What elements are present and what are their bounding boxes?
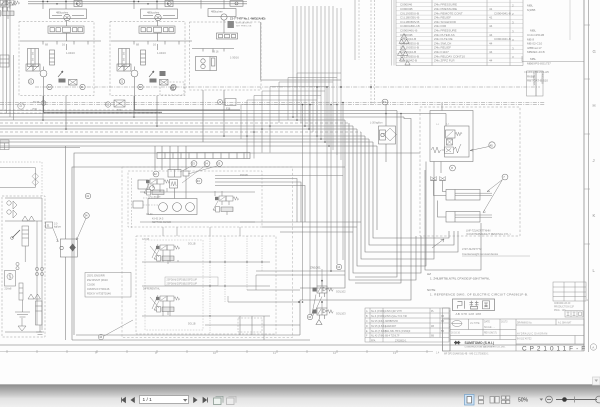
balloon 34: [382, 99, 388, 105]
filter drop line: [385, 105, 387, 126]
svg-text:2SPD(Hi)/2SPD(B)/2SPD1UP: 2SPD(Hi)/2SPD(B)/2SPD1UP: [167, 283, 198, 285]
pump P1 box 480cc/rev: [50, 9, 87, 19]
SUMITOMO logo diamond: [454, 341, 460, 344]
approval stamp box: [565, 311, 583, 317]
gauge block left margin: [0, 55, 9, 67]
solenoid glyph: [59, 79, 66, 83]
spec text box: [85, 273, 131, 298]
balloon 44: [98, 334, 103, 339]
svg-text:68 16: 68 16: [212, 50, 219, 54]
pressure valve column: [168, 170, 181, 178]
svg-text:SOL103: SOL103: [336, 312, 346, 316]
relief triangle B: [28, 294, 34, 299]
top interconnect piping: [28, 0, 247, 9]
balloon 31 (boxed): [46, 222, 53, 228]
balloon 42: [153, 171, 159, 177]
port rail: [20, 40, 101, 42]
balloon leaders: [180, 166, 218, 183]
drop lines: [43, 77, 45, 96]
strainer: [18, 326, 26, 331]
leader arrows into swivel: [53, 229, 58, 242]
svg-text:44: 44: [489, 59, 493, 63]
staircase runs: [373, 142, 449, 238]
kanji 7: [483, 301, 490, 309]
svg-text:D: D: [366, 325, 368, 328]
svg-text:6(1BB: 6(1BB: [527, 8, 535, 12]
counterbalance cartridge: [50, 50, 55, 65]
svg-text:MBL: MBL: [527, 4, 534, 8]
svg-text:43: 43: [197, 179, 200, 183]
toolbar: [0, 385, 600, 407]
dashed risers: [370, 0, 372, 105]
svg-text:SOL102: SOL102: [336, 290, 346, 294]
svg-text:F30: F30: [117, 109, 122, 112]
upper cluster boundary: [128, 171, 262, 227]
leader arrow to boundary: [432, 239, 444, 248]
sheet bottom scale ticks and numbers: [0, 350, 433, 353]
zoom slider: [556, 399, 597, 401]
cells text: [451, 321, 572, 341]
port rails upper cluster: [140, 191, 255, 193]
svg-text:5OL1B: 5OL1B: [188, 323, 196, 326]
svg-text:LNF-7ZLHZNTTNHN: LNF-7ZLHZNTTNHN: [466, 229, 490, 233]
assembly boundary (dashed): [2, 196, 45, 337]
motor M4: [186, 203, 195, 212]
svg-text:A: A: [592, 346, 594, 350]
riser extensions through bus: [246, 136, 248, 159]
svg-text:SUMITOMO (S.H.I.): SUMITOMO (S.H.I.): [465, 341, 494, 345]
valve handle: [12, 230, 20, 238]
svg-text:CP21011F-F: CP21011F-F: [522, 346, 588, 353]
next page button: [194, 398, 198, 403]
function caption box: [165, 277, 218, 286]
motor manifold box: [148, 199, 197, 215]
svg-text:CONSTRUCTION MACHINERY CO.,LTD: CONSTRUCTION MACHINERY CO.,LTD.: [465, 346, 506, 349]
balloon 21: [28, 79, 33, 84]
port label strip: [157, 153, 250, 159]
svg-text:2703003-1: 2703003-1: [395, 339, 407, 342]
single page layout (active, blue): [465, 395, 475, 406]
svg-text:250'1 ENG/RR: 250'1 ENG/RR: [87, 274, 105, 278]
pilot valve pair: [26, 64, 33, 71]
svg-text:C0904041-B: C0904041-B: [494, 11, 511, 15]
svg-text:6B-4 TZNL7F: 6B-4 TZNL7F: [385, 335, 400, 338]
svg-text:LTZ7-NH7Z77TZ: LTZ7-NH7Z77TZ: [462, 247, 482, 251]
svg-text:NV.15 (3/64): NV.15 (3/64): [371, 320, 385, 323]
svg-text:SCALE ····: SCALE ····: [484, 326, 495, 329]
hose loop B: [72, 167, 345, 340]
page view icon 2 (disabled): [227, 396, 237, 404]
feed line from bus: [441, 103, 443, 111]
accumulator AC2: [36, 301, 43, 325]
travel spool group B: [154, 296, 180, 315]
svg-text:13: 13: [393, 351, 397, 355]
dashed corner run: [0, 162, 42, 196]
svg-text:FFA: FFA: [371, 339, 376, 342]
aux spool group: [213, 196, 239, 215]
svg-text:NL.43 (7/64): NL.43 (7/64): [371, 335, 384, 338]
svg-text:53: 53: [217, 162, 220, 166]
svg-text:44: 44: [489, 33, 493, 37]
id text rows: [554, 303, 575, 312]
travel system outer boundary: [122, 167, 293, 338]
svg-text:P2O1B: P2O1B: [240, 174, 248, 177]
svg-text:C0904041-B·40: C0904041-B·40: [554, 303, 571, 305]
pump unit P1 (main winch pump): [19, 1, 101, 96]
svg-text:50%: 50%: [518, 397, 529, 403]
relief triangles: [22, 216, 28, 221]
svg-text:L-30 kgf/cm: L-30 kgf/cm: [370, 122, 383, 125]
svg-text:6B: 6B: [431, 335, 434, 338]
parts table grid: [395, 0, 397, 66]
svg-text:R5X3Y A/T35T0146: R5X3Y A/T35T0146: [87, 292, 111, 296]
svg-text:23V6 2)4L+T F4 74F: 23V6 2)4L+T F4 74F: [385, 315, 408, 318]
svg-text:A 1 SHA 6A7: A 1 SHA 6A7: [558, 322, 572, 325]
bottom id strip: [436, 353, 489, 356]
feeder rails: [240, 221, 361, 223]
cluster interconnects: [162, 227, 164, 236]
page view icon 1: [214, 396, 224, 404]
pilot dash-dot runs: [35, 86, 540, 88]
motor M1 circle: [40, 70, 47, 77]
svg-text:69-66: 69-66: [33, 101, 40, 104]
svg-text:#32 RSSIT (0610: #32 RSSIT (0610: [87, 278, 108, 282]
svg-text:Counterweight removal device: Counterweight removal device: [462, 252, 499, 256]
svg-text:MBREF-43.B: MBREF-43.B: [527, 50, 545, 54]
svg-text:K: K: [593, 213, 596, 218]
svg-text:kgf/cm: kgf/cm: [54, 226, 61, 229]
svg-text:12O1B: 12O1B: [142, 239, 150, 241]
two-page continuous icon: [502, 396, 510, 404]
sheet zone letters right margin: [584, 25, 596, 273]
winch control valve (vertical): [28, 49, 39, 67]
tank 2: [36, 325, 44, 335]
svg-text:21Ax8: 21Ax8: [5, 288, 12, 291]
balloon 7: [502, 174, 508, 180]
pump P1 circle: [64, 14, 70, 20]
svg-text:1. REFERENCE DWG. OF ELECTRIC: 1. REFERENCE DWG. OF ELECTRIC CIRCUIT CP…: [430, 293, 528, 297]
gear pump unit: [5, 271, 16, 287]
svg-text:54: 54: [205, 162, 208, 166]
svg-text:10: 10: [213, 351, 217, 355]
svg-text:1-30/16: 1-30/16: [230, 56, 239, 60]
U hose to off-page: [0, 168, 35, 188]
feeders down from bus: [154, 146, 156, 170]
svg-text:16173: 16173: [501, 322, 508, 324]
pressure switch glyph: [160, 71, 166, 76]
first page button: [122, 398, 126, 403]
spool drops: [162, 254, 164, 262]
upper cluster side runs: [215, 179, 297, 223]
vertical distribution strip: [443, 308, 451, 351]
svg-text:480cc/rev: 480cc/rev: [56, 11, 69, 15]
zoom out button: [546, 396, 553, 403]
svg-text:REV (06/17): REV (06/17): [484, 333, 497, 335]
svg-text:P30: P30: [33, 108, 38, 111]
sub unit dashed: [160, 82, 184, 95]
balloon 22: [47, 84, 52, 89]
svg-text:45: 45: [490, 143, 494, 147]
sheet border bottom: [0, 344, 584, 346]
svg-text:MBL: MBL: [530, 29, 537, 33]
lever crosses: [150, 244, 159, 258]
directional control valve DCV45: [430, 111, 473, 162]
dotted risers in cluster: [209, 236, 211, 334]
two-page layout icon: [490, 397, 499, 404]
svg-text:Z4lx ZFPZ FLR: Z4lx ZFPZ FLR: [434, 59, 455, 63]
svg-text:DATE: DATE: [484, 321, 490, 324]
cylinder feed loops: [425, 170, 481, 270]
svg-text:DWG · 12F: DWG · 12F: [554, 310, 566, 312]
svg-text:C0904041-B: C0904041-B: [494, 37, 511, 41]
svg-text:IRIE(1BB: IRIE(1BB: [541, 73, 545, 84]
svg-text:4WD-6A 30F/16: 4WD-6A 30F/16: [236, 22, 252, 25]
svg-text:L442F4R7: L442F4R7: [385, 325, 397, 328]
page number input: [140, 396, 189, 404]
circuit boundary dashed: [420, 107, 520, 236]
balloon 8: [450, 165, 456, 171]
pump unit P3 (boom hoist pump): [160, 1, 342, 95]
svg-text:RBT-2AT-B-610: RBT-2AT-B-610: [527, 79, 548, 83]
pilot cylinder: [19, 283, 23, 300]
dark pilot supply runs: [44, 96, 163, 112]
right feeder rails: [256, 270, 345, 272]
svg-text:3RHBHN7R: 3RHBHN7R: [385, 320, 398, 323]
svg-text:(COUNTERWEIGHT REMOVAL CYL.): (COUNTERWEIGHT REMOVAL CYL.): [466, 232, 511, 236]
svg-text:1-04/16: 1-04/16: [66, 51, 75, 55]
svg-text:F38: F38: [226, 108, 231, 111]
continuous layout icon: [479, 396, 484, 404]
pipe from regulator: [66, 33, 68, 41]
base rail: [5, 331, 42, 333]
solenoid valve SOL102: [0, 0, 16, 11]
svg-text:NOTE: NOTE: [427, 288, 435, 292]
tank symbol: [15, 300, 30, 317]
logo capsule: [452, 321, 462, 327]
hose loop C: [300, 117, 411, 335]
inner dashed box lower: [145, 240, 203, 330]
swivel joint body: [60, 239, 77, 257]
accumulator AC1: [22, 226, 29, 246]
svg-text:ZN1001: ZN1001: [310, 266, 321, 270]
junction dots: [42, 86, 402, 147]
svg-text:J: J: [593, 158, 595, 163]
valve group motif: [0, 0, 20, 19]
zoom in button (cut): [596, 396, 600, 403]
svg-text:53: 53: [192, 162, 195, 166]
cylinder CYL1: [446, 190, 480, 201]
svg-text:44: 44: [489, 24, 493, 28]
svg-text:44: 44: [489, 50, 493, 54]
svg-text:1 / 1: 1 / 1: [143, 397, 153, 403]
svg-text:4B: 4B: [431, 325, 434, 328]
svg-text:44: 44: [489, 41, 493, 45]
lower rail: [76, 334, 300, 336]
sheet border right: [583, 0, 585, 351]
poppet pair: [16, 262, 19, 265]
relief valve above pump P1: [74, 1, 82, 7]
cylinder CYL2: [446, 212, 480, 223]
kanji 4: [470, 301, 479, 309]
svg-text:CTA0E005: CTA0E005: [532, 73, 536, 86]
svg-text:H: H: [593, 103, 596, 108]
L-line exiting unit: [261, 22, 341, 80]
feed drop into swivel: [65, 146, 67, 239]
last page button: [203, 398, 208, 403]
svg-text:DIFFERENTIAL: DIFFERENTIAL: [143, 288, 161, 291]
regulator valve block: [48, 26, 84, 33]
svg-text:41: 41: [489, 7, 493, 11]
balloon 16: [307, 314, 312, 319]
check valve pair A: [7, 201, 11, 205]
spare parts column: [524, 4, 551, 83]
hose loop A: [74, 153, 420, 335]
pilot check valves: [440, 162, 442, 174]
filter F38: [217, 99, 222, 104]
svg-text:HYDRAULIC DIAGRAM: HYDRAULIC DIAGRAM: [517, 333, 548, 336]
balloon 41: [85, 193, 90, 198]
balloon 34b: [84, 213, 90, 219]
balloons 53 54 53: [191, 161, 197, 167]
motor M2: [159, 203, 168, 212]
pilot pump P30: [41, 101, 46, 106]
svg-text:16 16 16: 16 16 16: [451, 333, 461, 335]
svg-text:11: 11: [273, 351, 276, 355]
svg-text:34: 34: [383, 100, 386, 104]
balloon 12: [18, 103, 24, 109]
riser wires left edge: [2, 0, 4, 110]
svg-text:MF DP3 26AWG(6) 4B · 640·C: MF DP3 26AWG(6) 4B · 640·C1 2703003-1: [444, 353, 489, 356]
drops from pumps to bus: [42, 96, 44, 121]
balloon 21b: [80, 84, 85, 89]
left margin gauge box: [0, 140, 9, 150]
pump unit boundary (dashed): [19, 22, 94, 96]
svg-text:AB 678 128 188: AB 678 128 188: [456, 312, 482, 316]
arrow: [58, 71, 63, 77]
prev page button: [131, 398, 135, 403]
riser bundle: [292, 6, 294, 117]
filter F30: [114, 100, 125, 107]
svg-text:SET PRES 21B: SET PRES 21B: [236, 26, 252, 28]
relief triangle: [316, 320, 322, 325]
pilot pump subassembly: [131, 178, 133, 228]
svg-text:12: 12: [333, 351, 337, 355]
svg-text:G: G: [593, 49, 596, 54]
svg-text:PRODUCTION 12F: PRODUCTION 12F: [554, 307, 575, 309]
svg-text:C1600: C1600: [87, 283, 95, 287]
scrollbar bottom button: [593, 377, 600, 385]
travel spool group A: [154, 245, 180, 264]
svg-text:B-011Z 457Z2: B-011Z 457Z2: [517, 339, 532, 341]
junction dots: [209, 261, 262, 316]
svg-text:480cc/rev: 480cc/rev: [211, 10, 223, 14]
parts table row text: [400, 3, 514, 63]
port rails lower cluster: [142, 261, 270, 263]
hose runs: [5, 197, 42, 199]
svg-text:2SPD(Hi)/2SPD(B)/2SPD1UP: 2SPD(Hi)/2SPD(B)/2SPD1UP: [167, 280, 198, 282]
inline filter/check unit: [379, 126, 396, 144]
svg-text:ZJ-7"T47F'No.1 4WD(2AHD): ZJ-7"T47F'No.1 4WD(2AHD): [230, 17, 265, 21]
svg-text:42: 42: [154, 172, 157, 176]
svg-text:C: C: [366, 320, 368, 323]
steer spool group: [144, 179, 170, 198]
svg-text:NL.6 (3.5/64): NL.6 (3.5/64): [371, 310, 385, 313]
extra bus stub line: [0, 147, 80, 149]
pump unit P2 (aux winch pump, copy): [110, 1, 192, 96]
svg-text:1. Z4lLBRTBLN7RL CPX0301F-1BN7: 1. Z4lLBRTBLN7RL CPX0301F-1BN77HFNL: [430, 277, 490, 281]
svg-text:13V6 1)N7 Z7H: 13V6 1)N7 Z7H: [385, 310, 402, 313]
motor M3: [173, 203, 182, 212]
svg-text:HZ: HZ: [427, 272, 431, 276]
lower cluster boundary: [136, 236, 276, 334]
svg-text:MB6XPS-8G1737: MB6XPS-8G1737: [527, 61, 551, 65]
inline check pair: [32, 173, 39, 180]
svg-text:41: 41: [489, 16, 493, 20]
svg-text:DISTRIBUTION AB·12: DISTRIBUTION AB·12: [448, 310, 451, 333]
balloon 13: [105, 102, 110, 107]
spec tag (vertical text box): [527, 71, 537, 96]
staircase to the left: [297, 73, 341, 117]
svg-text:DR CRUISE: DR CRUISE: [149, 197, 162, 199]
kanji 7: [458, 301, 490, 309]
svg-text:SETTING 30/31M: SETTING 30/31M: [152, 221, 171, 224]
svg-text:5OL1B: 5OL1B: [188, 243, 196, 246]
svg-text:NL.6 (3.5/64): NL.6 (3.5/64): [371, 315, 385, 318]
svg-text:5N1,N5L TB.5 (3.5/64)F: 5N1,N5L TB.5 (3.5/64)F: [385, 330, 411, 333]
balloon 43: [196, 178, 202, 184]
balloon 45: [489, 142, 495, 148]
svg-text:DRAWING No.: DRAWING No.: [517, 322, 533, 325]
port circle pairs: [35, 267, 38, 270]
svg-text:016XP2J FT30146: 016XP2J FT30146: [87, 287, 110, 291]
hazard triangles: [397, 34, 410, 66]
svg-text:LS-TYPE: LS-TYPE: [470, 323, 480, 325]
